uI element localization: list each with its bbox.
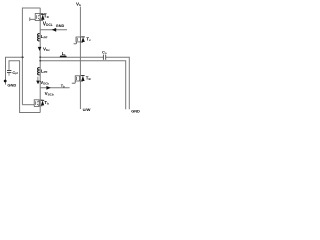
svg-text:Vb: Vb [76,2,81,8]
svg-text:LPF: LPF [41,34,48,40]
svg-text:U/W: U/W [83,107,91,112]
svg-text:VSCb: VSCb [45,91,54,97]
svg-text:To: To [44,14,49,20]
svg-text:GND: GND [131,109,140,114]
svg-text:TB: TB [86,75,92,80]
svg-text:Cpl: Cpl [12,70,18,75]
svg-text:GND: GND [56,24,65,28]
svg-text:Tc: Tc [86,37,91,42]
svg-text:Co: Co [102,49,107,54]
svg-text:GND: GND [7,82,16,87]
svg-text:Tb: Tb [44,100,49,105]
svg-text:VEc: VEc [43,47,50,53]
svg-text:VDCb: VDCb [40,80,49,86]
svg-text:Tb: Tb [61,84,65,88]
svg-text:VDCL: VDCL [43,21,53,27]
svg-text:LPF: LPF [41,68,48,74]
